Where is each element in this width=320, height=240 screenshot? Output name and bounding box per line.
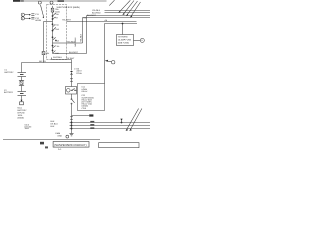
inline fuse on left drop [42,52,45,55]
wire L2 [105,12,151,14]
circled number 2 [50,1,53,4]
inline connector arrows bottom [70,116,73,118]
fuse box G1 (dashed enclosure) [47,5,67,60]
wire L6 [105,23,138,25]
wire L4 [83,17,151,19]
svg-text:BLK/WHT: BLK/WHT [87,14,97,17]
continuation arrows bottom right [126,109,139,131]
relay K14 contact [71,89,72,91]
svg-text:DK BLU: DK BLU [51,123,59,126]
connector circle C12 [21,17,24,20]
switch F22 [71,94,73,99]
inline connector on bus drop [121,119,123,123]
branch label [89,114,93,116]
svg-text:HORN: HORN [35,19,41,22]
ground bus 2 [70,125,151,127]
page mark left of label box [40,142,44,145]
annotation connector circle [112,61,115,64]
branch wire right [72,115,90,117]
svg-text:BLK: BLK [51,125,55,128]
svg-text:SUB FUSE BOX (MAIN): SUB FUSE BOX (MAIN) [57,6,80,9]
svg-text:DK WHT: DK WHT [67,57,76,60]
switch SW1 inside box [52,12,59,21]
svg-text:(SUSPENSION CIRCUIT): (SUSPENSION CIRCUIT) [54,143,86,147]
wire below switch [71,104,73,116]
bottom label box SUSPENSION CIRCUIT [53,142,89,148]
wire: vertical to relay chain [71,60,73,71]
junction node bus1 right [121,122,123,124]
wire L3 [87,15,151,17]
wire: vertical drop x104 [104,24,106,84]
annotation arrow on wire [105,60,108,62]
relay contact B inside box [52,37,67,43]
arrow from C11 [25,14,30,16]
arrow from C12 [25,17,30,19]
stub to connector circle [134,40,141,42]
connector circle right of note box [140,38,144,42]
wire from box to left junction [44,21,47,23]
wire: box bottom feed short [51,58,53,60]
inline connector 2 [70,78,73,80]
relay contact A inside box [52,21,60,36]
svg-text:MAIN: MAIN [55,10,60,13]
svg-text:CONN: CONN [76,72,82,75]
svg-text:YEL/BLK: YEL/BLK [80,33,83,42]
wire to bus [71,120,73,129]
continuation label box top-left [13,0,20,2]
circled mark near ground [66,135,69,138]
svg-text:SW: SW [56,13,59,16]
wire: left vertical drop [43,22,45,63]
wire L1 top right [105,10,151,12]
continuation arrow top lone [109,0,114,5]
inline fuse F1 [19,80,24,82]
svg-text:BATTERY: BATTERY [5,71,15,74]
bottom rule [3,139,100,141]
wire to relay [71,82,73,87]
svg-text:WHT/BLU: WHT/BLU [53,56,63,59]
wire below battery B2 [21,96,23,101]
wire: top horizontal bus [20,0,106,2]
annotation arrow to fuse box [41,5,44,17]
svg-text:YEL/BLK: YEL/BLK [67,40,76,43]
svg-text:15 AMP FUSE: 15 AMP FUSE [118,39,132,42]
junction node on L6 [122,23,124,25]
junction node bus2 [71,125,73,127]
fuse arrow symbol [21,100,23,102]
svg-text:BLK/WHT: BLK/WHT [69,51,79,54]
svg-text:100A: 100A [25,127,30,130]
svg-text:YEL/WHT: YEL/WHT [62,19,72,22]
fuse F1 inside box [51,6,60,13]
ground bus 3 [70,128,151,130]
svg-text:GND: GND [58,135,63,138]
wire: battery feed horizontal [22,62,72,64]
pin node to left wire [47,21,53,23]
continuation arrows top right group [119,0,131,12]
bus labels on lines [90,121,94,123]
wire: drop to fuse note box [122,24,124,35]
svg-text:(M/B FUSE): (M/B FUSE) [118,41,130,44]
battery column: wire down [21,63,23,73]
circled number 1 [38,1,41,4]
terminal bars row2 [31,17,34,19]
svg-text:RELAY: RELAY [82,90,89,93]
relay contact D inside box [52,50,67,55]
svg-text:TO HORN: TO HORN [118,36,128,39]
battery B1 [18,72,27,74]
ground bus 1 [70,122,151,124]
label on top wire [58,0,65,2]
note box TO HORN FUSE [117,35,134,46]
wire to connector 2 [71,75,73,78]
wire L5 main horn feed [67,21,137,23]
terminal bars row1 [31,13,34,15]
svg-text:BLK: BLK [51,120,55,123]
svg-text:NO.1 B: NO.1 B [39,60,46,63]
ground symbol [71,129,73,134]
svg-text:C310: C310 [82,107,87,110]
inline connector C725 [70,71,73,73]
junction node bus3 [71,128,73,130]
svg-text:(MAIN): (MAIN) [18,116,25,119]
junction node bus1 [71,122,73,124]
riser for contact C output [86,16,88,54]
riser for contact B output [82,18,84,44]
relay K14 box [66,87,77,95]
empty reference box bottom right [99,143,139,148]
label frame around relay labels [78,84,105,111]
svg-text:BATTERY: BATTERY [4,91,14,94]
connector circle C11 [21,13,24,16]
relay contact C inside box [52,43,60,50]
relay K14 coil [67,89,71,93]
battery B2 [18,91,27,93]
relay contact A0 inside box [52,24,60,27]
